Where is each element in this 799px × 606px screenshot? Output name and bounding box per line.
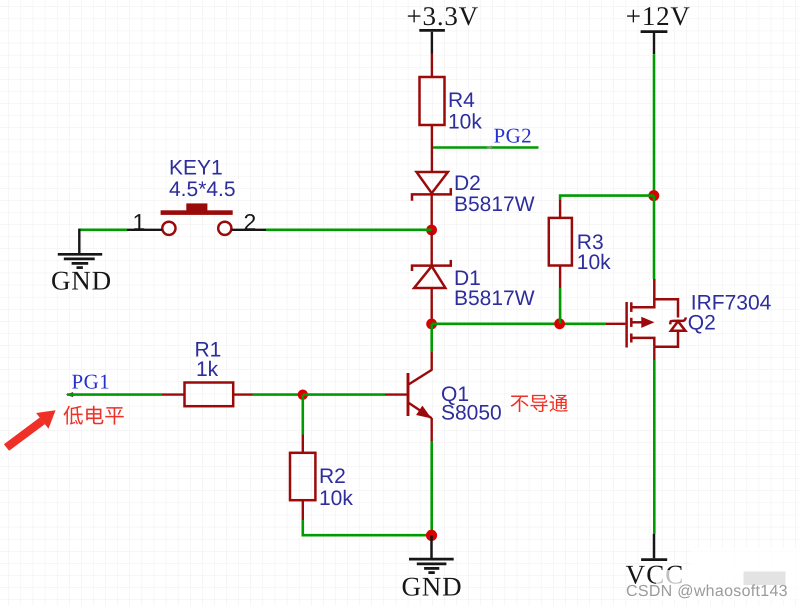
svg-text:4.5*4.5: 4.5*4.5 bbox=[169, 178, 236, 201]
wire R2 top pin bbox=[302, 435, 304, 454]
wire D1 cathode pin bbox=[431, 230, 433, 265]
svg-text:1k: 1k bbox=[196, 358, 219, 381]
KEY1 button cap bbox=[186, 203, 207, 210]
svg-text:S8050: S8050 bbox=[441, 402, 502, 425]
wire PG1 bbox=[67, 393, 162, 396]
wire KEY1 pin2 stub bbox=[232, 229, 266, 231]
svg-text:PG1: PG1 bbox=[72, 369, 111, 393]
wire KEY1 pin1 stub bbox=[127, 229, 162, 231]
node PG2 anchor tick bbox=[486, 146, 492, 150]
power +3.3V bar symbol bbox=[419, 29, 445, 32]
ground GND left bbox=[51, 229, 112, 296]
wire R4 top pin bbox=[431, 54, 433, 79]
wire R2 to GND node bbox=[303, 520, 432, 535]
wire R2 branch down bbox=[301, 395, 304, 435]
svg-text:Q2: Q2 bbox=[688, 312, 716, 335]
svg-text:B5817W: B5817W bbox=[454, 287, 535, 310]
wire MOSFET gate stub bbox=[606, 323, 625, 325]
node PG1 anchor arrow bbox=[66, 392, 73, 397]
wire R1 to base node bbox=[253, 393, 303, 396]
resistor R2 bbox=[290, 453, 315, 500]
svg-text:R2: R2 bbox=[319, 465, 346, 488]
annotation text 低电平 (low level) bbox=[63, 406, 82, 425]
svg-text:GND: GND bbox=[51, 266, 112, 296]
svg-text:PG2: PG2 bbox=[494, 124, 533, 148]
wire R2 bottom pin bbox=[302, 500, 304, 520]
resistor R1 bbox=[185, 383, 234, 407]
wire +12V stub (black) bbox=[653, 33, 655, 54]
wire KEY1 pin2 to D-node bbox=[266, 229, 432, 232]
wire gate net horizontal bbox=[432, 322, 606, 325]
svg-text:10k: 10k bbox=[319, 487, 353, 510]
wire source to VCC bbox=[653, 360, 656, 534]
wire emitter to GND node bbox=[430, 441, 433, 536]
wire R3 feed from +12V node bbox=[560, 196, 654, 200]
annotation red arrow bbox=[4, 418, 45, 451]
wire D1 anode to gate node bbox=[431, 288, 433, 324]
wire +12V node to MOSFET drain bbox=[653, 196, 656, 279]
svg-text:10k: 10k bbox=[577, 251, 611, 274]
wire +3.3V stub (black) bbox=[431, 32, 433, 54]
power VCC bar symbol bbox=[641, 558, 667, 561]
junction node emitter/R2/GND bbox=[426, 530, 437, 541]
junction node D1/collector/gate bbox=[426, 319, 437, 330]
svg-text:GND: GND bbox=[402, 571, 463, 601]
wire R4 bottom pin to D2 bbox=[431, 125, 433, 173]
svg-text:KEY1: KEY1 bbox=[169, 157, 223, 180]
wire R3 bottom pin bbox=[559, 266, 561, 289]
power +12V bar symbol bbox=[641, 30, 668, 33]
svg-text:R4: R4 bbox=[448, 89, 475, 112]
annotation text 不导通 (not conducting) bbox=[511, 395, 529, 412]
wire Q1 collector pin bbox=[431, 352, 433, 371]
component KEY1 push button bbox=[133, 157, 257, 235]
resistor R4 bbox=[420, 77, 445, 125]
wire collector branch green bbox=[430, 324, 433, 352]
wire MOSFET source down bbox=[653, 347, 655, 360]
wire PG2 bbox=[433, 146, 539, 149]
junction node R3 bottom bbox=[554, 318, 565, 329]
power VCC stub (black) bbox=[653, 534, 656, 559]
wire R1 right pin bbox=[233, 393, 252, 395]
svg-text:B5817W: B5817W bbox=[454, 193, 535, 216]
wire Q1 emitter pin bbox=[431, 418, 433, 441]
KEY1 button bar bbox=[161, 210, 233, 215]
diode D1 B5817W (schottky, cathode up) bbox=[412, 260, 451, 288]
ground GND bottom bbox=[402, 535, 463, 601]
KEY1 contact 2 circle bbox=[218, 222, 231, 235]
junction node base/R2 bbox=[298, 390, 308, 400]
wire Q1 base pin bbox=[385, 393, 407, 395]
wire R1 left pin bbox=[162, 393, 185, 395]
wire KEY1 pin1 to GND corner bbox=[79, 229, 127, 232]
svg-text:+12V: +12V bbox=[626, 1, 691, 31]
junction node KEY/D2/D1 bbox=[426, 225, 437, 236]
junction node +12V/R3 bbox=[648, 190, 659, 201]
wire R3 to gate net bbox=[559, 288, 562, 324]
wire +12V down to R3 node bbox=[653, 54, 656, 195]
wire D2 cathode to key node bbox=[431, 196, 433, 231]
transistor Q2 IRF7304 (P-MOSFET) bbox=[627, 279, 686, 348]
svg-text:+3.3V: +3.3V bbox=[407, 1, 479, 31]
wire R3 top pin bbox=[559, 200, 561, 218]
wire base node to Q1 bbox=[303, 393, 385, 396]
KEY1 contact 1 circle bbox=[162, 222, 175, 235]
resistor R3 bbox=[549, 218, 572, 266]
svg-text:D2: D2 bbox=[454, 172, 481, 195]
svg-text:CSDN @whaosoft143: CSDN @whaosoft143 bbox=[626, 583, 788, 600]
watermark background patches bbox=[690, 548, 799, 578]
diode D2 B5817W (schottky, cathode down) bbox=[412, 172, 451, 201]
transistor Q1 S8050 (NPN) bbox=[408, 370, 432, 418]
svg-text:10k: 10k bbox=[448, 110, 482, 133]
